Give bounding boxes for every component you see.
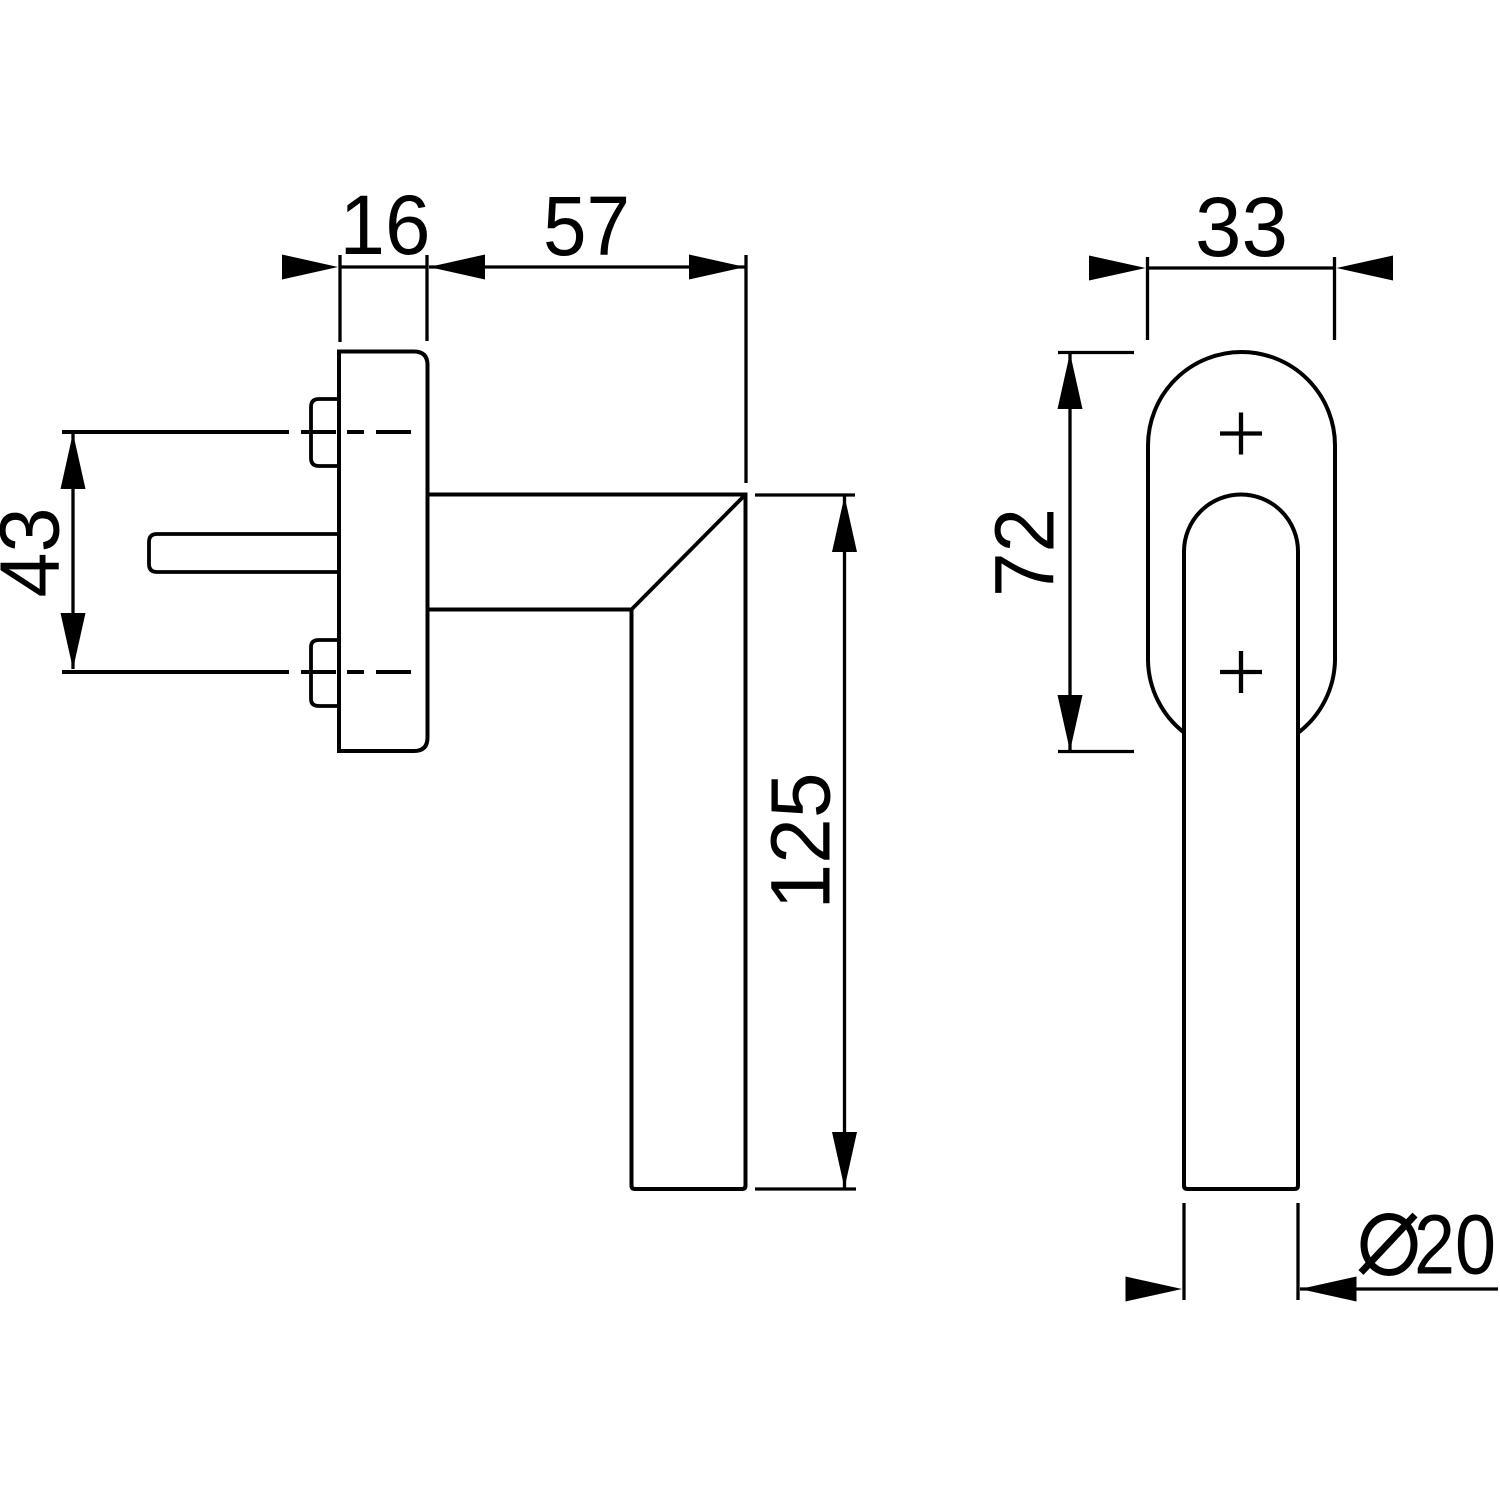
dim 33: left outside arrow: [1089, 256, 1146, 281]
svg-text:57: 57: [543, 179, 630, 273]
dim 16: extension lines: [338, 255, 341, 342]
rosette oval (front view): [1148, 352, 1335, 732]
dim 33: right outside arrow: [1337, 256, 1394, 281]
svg-text:20: 20: [1414, 1198, 1496, 1292]
dim 125: extension line bottom: [755, 1187, 856, 1190]
dim 33: dimension line: [1148, 266, 1334, 269]
dim 20: dimension tail line: [1300, 1287, 1498, 1290]
screw cross bottom: [1220, 651, 1262, 693]
dim 72: extension line top: [1058, 351, 1134, 354]
dim 20: extension lines: [1182, 1203, 1185, 1300]
dim 43: dimension line: [71, 433, 74, 669]
bottom screw head: [311, 640, 339, 706]
svg-text:16: 16: [340, 178, 431, 272]
dim 125: bottom arrow: [832, 1132, 857, 1188]
dim 57: extension line: [744, 255, 747, 483]
spindle: [149, 534, 339, 572]
handle outline (side view): [428, 495, 746, 1190]
dim 72: bottom arrow: [1058, 695, 1083, 751]
dim 20: label diameter symbol: [1364, 1217, 1414, 1273]
svg-text:125: 125: [754, 773, 848, 910]
dim 16: outside arrow: [282, 255, 338, 280]
svg-text:72: 72: [978, 508, 1072, 597]
dim 72: dimension line: [1068, 353, 1071, 751]
svg-text:33: 33: [1195, 180, 1288, 274]
top screw centerline: [62, 430, 411, 434]
dim 43: top arrow: [61, 433, 86, 489]
dim 20: right outside arrow with tail: [1300, 1277, 1357, 1302]
svg-text:43: 43: [0, 508, 77, 598]
dim 57: right arrow: [689, 255, 745, 280]
dim 20: left outside arrow: [1126, 1277, 1183, 1302]
screw cross top: [1220, 413, 1262, 455]
dim 33: extension lines: [1146, 257, 1149, 340]
dim 57: dimension line: [429, 265, 745, 268]
top screw head: [311, 399, 339, 466]
dim 16: dimension line: [340, 265, 427, 268]
dim 57: left arrow: [429, 255, 485, 280]
dim 125: top arrow: [832, 496, 857, 552]
dim 72: top arrow: [1058, 353, 1083, 409]
dim 125: extension line top: [755, 493, 855, 496]
handle bar (front view): [1184, 495, 1298, 1190]
dim 43: bottom arrow: [61, 613, 86, 669]
dim 125: dimension line: [843, 496, 846, 1188]
handle bend miter line: [632, 495, 746, 610]
bottom screw centerline: [62, 670, 411, 674]
dim 72: extension line bottom: [1058, 750, 1134, 753]
rosette plate (side view): [339, 352, 428, 752]
